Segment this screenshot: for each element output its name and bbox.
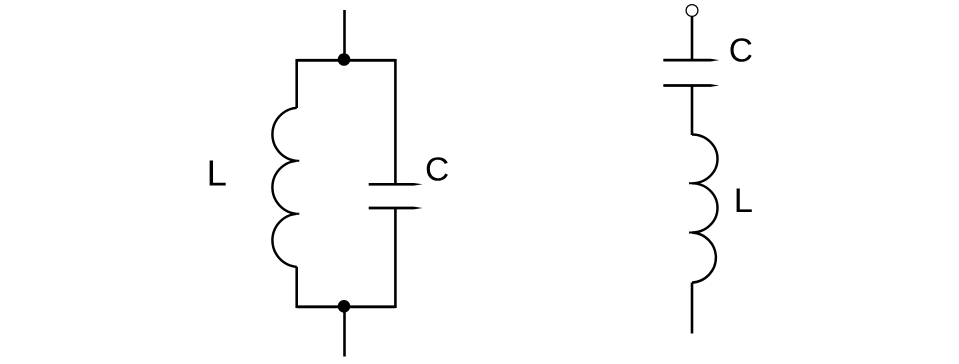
wire between capacitor and inductor [691, 86, 694, 136]
capacitor C (parallel circuit) [369, 183, 423, 209]
wire bottom lead of series circuit [691, 283, 694, 334]
svg-text:C: C [425, 151, 449, 188]
node top junction [338, 53, 351, 66]
terminal (open circle) [686, 5, 698, 17]
wire right branch lower [394, 208, 397, 308]
wire top rail [297, 59, 396, 62]
wire bottom rail [297, 305, 396, 308]
wire left branch upper [295, 59, 298, 108]
wire terminal lead of series circuit [691, 16, 694, 60]
svg-text:L: L [207, 153, 227, 194]
wire top lead of parallel LC [343, 10, 346, 60]
svg-text:L: L [734, 182, 753, 220]
svg-text:C: C [729, 32, 753, 69]
inductor L2 [692, 135, 718, 283]
inductor L1 [272, 108, 296, 267]
capacitor C (series circuit) [663, 59, 719, 87]
wire left branch lower [295, 267, 298, 308]
wire right branch upper [394, 59, 397, 184]
node bottom junction [338, 300, 351, 313]
wire bottom lead [343, 307, 346, 357]
